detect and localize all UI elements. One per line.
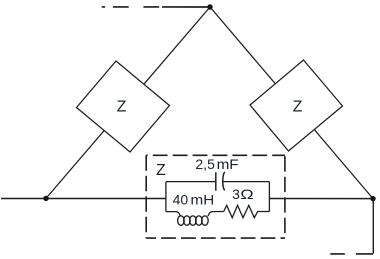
svg-text:3: 3 <box>232 186 240 202</box>
svg-text:Z: Z <box>117 99 127 116</box>
svg-text:40: 40 <box>173 191 189 207</box>
svg-text:mF: mF <box>217 157 239 172</box>
svg-text:Z: Z <box>156 162 166 179</box>
svg-text:mH: mH <box>191 193 215 208</box>
svg-text:2,5: 2,5 <box>195 156 215 172</box>
svg-text:Z: Z <box>293 99 303 116</box>
svg-text:Ω: Ω <box>240 187 253 203</box>
